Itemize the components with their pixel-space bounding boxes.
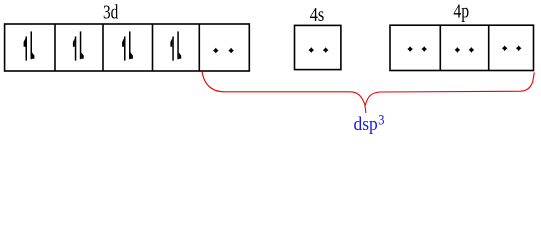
empty-slot dots 4p box3 — [502, 46, 522, 52]
4p orbital row outline — [390, 25, 534, 70]
electron pair harpoons 3d box1 — [24, 31, 35, 60]
3d orbital row outline — [5, 24, 250, 71]
svg-text:4s: 4s — [310, 4, 325, 26]
empty-slot dots 4s box — [309, 47, 329, 53]
empty-slot dots 4p box2 — [455, 47, 475, 53]
empty-slot dots 4p box1 — [407, 46, 427, 52]
svg-text:4p: 4p — [453, 1, 469, 23]
empty-slot dots 3d box5 — [213, 48, 234, 54]
electron pair harpoons 3d box3 — [122, 31, 133, 60]
4s orbital box outline — [295, 25, 341, 69]
electron pair harpoons 3d box4 — [170, 31, 181, 60]
electron pair harpoons 3d box2 — [73, 31, 84, 60]
3d cell divider 4 — [198, 24, 200, 71]
3d cell divider 3 — [152, 24, 154, 71]
4p cell divider 2 — [488, 25, 490, 70]
red grouping brace — [202, 72, 534, 114]
4p cell divider 1 — [439, 25, 441, 70]
3d cell divider 1 — [54, 24, 56, 71]
svg-text:dsp: dsp — [354, 114, 378, 135]
svg-text:3: 3 — [378, 112, 384, 128]
svg-text:3d: 3d — [103, 3, 118, 24]
3d cell divider 2 — [102, 24, 104, 71]
